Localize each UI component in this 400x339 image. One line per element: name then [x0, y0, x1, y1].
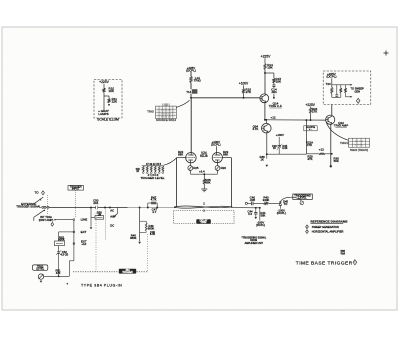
svg-text:4.5-25: 4.5-25	[60, 252, 68, 256]
svg-text:HORIZONTAL AMPLIFIER: HORIZONTAL AMPLIFIER	[312, 230, 344, 234]
svg-text:TRIGGER LEVEL: TRIGGER LEVEL	[140, 176, 164, 180]
wire delay line lower	[175, 206, 231, 208]
svg-text:2 4 6 8 1 2: 2 4 6 8 1 2	[161, 113, 172, 115]
svg-text:.001: .001	[271, 90, 277, 94]
wire Q24 base curve	[326, 121, 349, 140]
wire V24B plate	[216, 146, 218, 153]
wire C62 down	[58, 253, 60, 276]
resistor R28b	[345, 85, 347, 88]
svg-text:+100V: +100V	[239, 82, 249, 86]
boxed label SLOPE	[304, 126, 317, 131]
svg-text:56K: 56K	[334, 159, 339, 163]
wire trig bus horizontal	[191, 97, 260, 99]
svg-text:.001: .001	[93, 201, 99, 205]
svg-text:10K: 10K	[109, 89, 114, 93]
inductor L14	[190, 76, 193, 83]
resistor R21 small	[319, 153, 325, 155]
svg-text:LEVEL: LEVEL	[298, 196, 307, 200]
svg-text:LINE: LINE	[201, 221, 207, 224]
resistor R44 branch	[259, 208, 261, 221]
wire V24B grid	[222, 157, 231, 159]
wire Q34 emitter resistor	[266, 154, 268, 159]
wire branch to R11	[104, 95, 109, 97]
transistor Q34	[262, 123, 272, 133]
linkage dotted mid	[95, 213, 97, 271]
wire diode down	[279, 206, 281, 209]
arrow to sweep upper	[346, 84, 351, 86]
capacitor C50	[95, 206, 97, 209]
resistor R62 box	[54, 241, 64, 246]
linkage trig input dotted	[74, 190, 76, 218]
wire ext contacts down	[73, 221, 75, 261]
svg-text:(DIST AMP): (DIST AMP)	[39, 218, 54, 222]
pot triggering level	[300, 201, 304, 205]
capacitor C26	[336, 85, 338, 95]
svg-text:(DCPL): (DCPL)	[277, 211, 286, 215]
svg-text:T24: T24	[326, 82, 331, 86]
svg-text:6DJ8: 6DJ8	[200, 154, 208, 158]
svg-text:(DCPL): (DCPL)	[256, 223, 265, 227]
resistor R26	[331, 87, 333, 93]
resistor R27	[340, 85, 342, 88]
wire T14 to junction	[190, 94, 192, 98]
svg-text:15K: 15K	[267, 65, 272, 69]
dashed enclosure trig out	[323, 71, 371, 105]
svg-text:SWEEP GENERATOR: SWEEP GENERATOR	[312, 225, 339, 229]
wire slope vertical	[305, 120, 307, 154]
wire ext row	[59, 231, 74, 233]
resistor R24	[310, 106, 312, 109]
input terminal circles	[42, 206, 44, 208]
junction lens left	[174, 206, 176, 208]
wire wafer to trig bus	[176, 100, 189, 107]
junction shunt a	[255, 207, 257, 209]
svg-text:56K: 56K	[260, 213, 265, 217]
svg-text:4.7K: 4.7K	[151, 198, 157, 202]
switch SW14 SOURCE wafer table	[156, 106, 177, 119]
wire cathode right	[217, 170, 219, 173]
switch arm upper	[33, 197, 43, 204]
ground C44	[255, 217, 258, 219]
wire inner top	[332, 84, 346, 86]
int pickup diamond	[51, 222, 54, 226]
svg-text:TRIGGER SIGNAL: TRIGGER SIGNAL	[16, 205, 41, 209]
svg-text:470: 470	[56, 271, 61, 275]
wire R14 top	[264, 58, 266, 63]
diode D45	[278, 202, 280, 204]
boxed label trig input	[68, 186, 84, 191]
ground R48	[138, 242, 141, 244]
wire branch R15	[265, 72, 274, 74]
wire diode junction up	[280, 197, 291, 202]
arrow to sweep lower	[346, 96, 351, 98]
transistor Q24	[326, 115, 335, 124]
boxed label to sweep	[119, 269, 136, 274]
resistor R49	[145, 223, 147, 232]
svg-text:| | | | | |: | | | | | |	[163, 104, 170, 106]
svg-text:47 33 22 15 8: 47 33 22 15 8	[146, 163, 162, 166]
svg-text:*TRIGGERING SIGNAL: *TRIGGERING SIGNAL	[241, 236, 266, 239]
svg-text:FROM: FROM	[250, 240, 257, 242]
transistor Q14	[260, 94, 269, 103]
linkage dotted right	[146, 234, 148, 272]
svg-text:27K: 27K	[246, 90, 251, 94]
svg-text:27K: 27K	[312, 110, 317, 114]
capacitor C62	[57, 251, 60, 253]
wire pot row	[44, 275, 70, 277]
capacitor C36	[278, 145, 282, 147]
svg-text:+12: +12	[270, 116, 275, 120]
svg-text:LAMPS: LAMPS	[98, 112, 108, 116]
dashed plugin line left	[73, 271, 119, 273]
svg-text:T14: T14	[186, 90, 191, 94]
svg-text:GEN: GEN	[354, 90, 360, 93]
svg-text:LINE: LINE	[81, 218, 88, 222]
coupling wiper arrow	[117, 208, 119, 214]
terminal upper line	[245, 202, 247, 204]
wire L14 to T14	[190, 83, 192, 90]
svg-text:+225V: +225V	[99, 80, 109, 84]
legend item horizontal amplifier	[306, 230, 309, 234]
resistor R15	[273, 78, 275, 83]
svg-text:3.3K: 3.3K	[282, 146, 288, 150]
ground R50	[90, 227, 93, 229]
dashed enclosure delay line	[174, 211, 235, 224]
dashed enclosure scale-illum	[94, 80, 122, 119]
wire R50 branch	[90, 208, 92, 218]
wire T14 top	[190, 72, 192, 76]
svg-text:4.7K: 4.7K	[252, 127, 258, 131]
svg-text:TD: TD	[284, 202, 288, 206]
svg-text:1 2 5 1 2 5: 1 2 5 1 2 5	[161, 110, 172, 112]
svg-text:DC: DC	[110, 223, 114, 227]
wire cathode left	[189, 170, 191, 173]
wire lower conductor	[231, 206, 233, 208]
svg-text:10K: 10K	[276, 80, 281, 84]
svg-text:LEVEL: LEVEL	[36, 267, 45, 271]
wire trig bus to V24A	[190, 98, 192, 153]
wire R62 to C62	[58, 246, 60, 252]
junction lens right	[231, 206, 233, 208]
svg-text:AC: AC	[110, 208, 114, 212]
wire R14 to Q14	[264, 70, 266, 95]
wire main input line	[49, 206, 175, 208]
wire upper conductor	[247, 202, 251, 204]
dashed plugin line right	[136, 271, 147, 273]
svg-text:RM: RM	[341, 251, 346, 255]
ground cathode	[201, 188, 207, 190]
capacitor C14	[273, 83, 275, 85]
svg-text:TRIG'D: TRIG'D	[340, 141, 349, 145]
svg-text:TRIG C.F.: TRIG C.F.	[269, 104, 283, 108]
svg-text:+ -: + -	[309, 128, 312, 131]
svg-text:900K: 900K	[58, 238, 65, 242]
divider chain R-levels	[142, 165, 164, 167]
trimmer R26c	[216, 163, 218, 166]
ground Q34	[266, 165, 269, 167]
wire R50 down	[90, 217, 92, 226]
svg-text:SOURCE SW14: SOURCE SW14	[156, 118, 176, 122]
resistor R11	[108, 99, 110, 104]
wire R28 to gnd	[203, 184, 205, 189]
svg-text:330K: 330K	[263, 198, 270, 202]
wire dcpl down	[331, 78, 333, 87]
svg-text:EXT: EXT	[81, 230, 87, 234]
resistor R16	[242, 89, 244, 94]
wire Q34 emitter	[266, 132, 268, 154]
transformer T14	[192, 89, 198, 94]
resistor R14	[264, 64, 266, 70]
ground pot	[40, 281, 43, 283]
pot R51 knob	[38, 274, 43, 279]
svg-text:TIME BASE TRIGGER: TIME BASE TRIGGER	[296, 261, 353, 267]
svg-text:N O R M L: N O R M L	[355, 144, 364, 146]
wire Q24 emitter	[330, 124, 332, 166]
junction main c	[139, 207, 141, 209]
wire V24A grid	[177, 157, 186, 159]
svg-text:3.3: 3.3	[248, 212, 252, 216]
capacitor C40	[250, 202, 252, 206]
svg-text:22K: 22K	[112, 100, 117, 104]
resistor R28	[203, 179, 205, 185]
svg-text:.005: .005	[249, 198, 255, 202]
resistor R40	[264, 202, 269, 204]
wire ext chain vertical	[58, 232, 60, 241]
svg-text:TRIG: TRIG	[194, 79, 202, 83]
svg-text:TRIGGER: TRIGGER	[122, 272, 133, 274]
svg-text:+3.4: +3.4	[199, 170, 205, 174]
junction main a	[90, 207, 92, 209]
registration mark	[384, 52, 389, 54]
wire +12 horizontal	[265, 119, 326, 121]
wire Q34 collector	[265, 120, 267, 124]
svg-text:(DCPL): (DCPL)	[186, 68, 196, 72]
svg-text:REFERENCE DIAGRAMS: REFERENCE DIAGRAMS	[311, 220, 348, 224]
wire R49 loop	[140, 220, 147, 222]
capacitor C44	[255, 208, 257, 213]
svg-text:68K: 68K	[223, 153, 228, 157]
wire cathode down	[203, 174, 205, 179]
svg-text:SW24 (TRIG'D): SW24 (TRIG'D)	[350, 148, 368, 152]
boxed label triggering level	[293, 194, 313, 199]
wire emitter bus	[266, 153, 306, 155]
svg-text:÷10: ÷10	[81, 242, 86, 246]
svg-text:68K: 68K	[178, 153, 183, 157]
switch SW24 wafer table	[349, 138, 370, 147]
wire grid rail left	[176, 158, 178, 207]
tube V24B	[212, 153, 222, 163]
wire R48 branch	[139, 208, 141, 242]
svg-text:680K: 680K	[130, 236, 137, 240]
svg-text:47K: 47K	[307, 143, 312, 147]
svg-text:SCALE ILLUM: SCALE ILLUM	[97, 118, 119, 122]
svg-text:AMPLIFIER UNIT: AMPLIFIER UNIT	[245, 242, 264, 245]
wire delay line upper	[175, 206, 231, 208]
svg-text:TRIG AMP: TRIG AMP	[334, 124, 348, 128]
wire inner bottom	[332, 96, 341, 98]
svg-text:+12: +12	[319, 148, 324, 152]
legend item sweep generator	[306, 225, 309, 229]
svg-text:+225V: +225V	[261, 54, 271, 58]
wire cathode bus	[190, 173, 217, 175]
junction main b	[104, 207, 106, 209]
wire R16 bottom	[243, 94, 245, 98]
wire Q14 emitter	[264, 102, 266, 120]
svg-text:R26: R26	[221, 166, 227, 170]
wire grid rail right	[230, 158, 232, 207]
terminal Q24 emitter end	[330, 165, 332, 167]
wire C14 to bus	[273, 94, 275, 98]
resistor R50 box	[95, 216, 104, 220]
resistor R47 body	[151, 202, 156, 205]
tube V24A	[186, 153, 196, 163]
svg-text:(DCPL): (DCPL)	[326, 75, 336, 79]
wire mid branch	[278, 137, 280, 145]
wire int pickup stub	[33, 218, 35, 221]
resistor R10	[103, 88, 105, 93]
svg-text:8-50: 8-50	[150, 232, 156, 236]
wire R24 to bus	[310, 114, 312, 121]
svg-text:4.7: 4.7	[152, 210, 156, 214]
boxed label int trig level	[33, 265, 48, 270]
wire Q24 collector	[331, 104, 333, 115]
svg-text:(DCPL): (DCPL)	[211, 142, 221, 146]
wire R47 loop	[147, 203, 149, 208]
svg-text:47K: 47K	[307, 157, 312, 161]
wire R16 top	[243, 85, 245, 88]
boxed label delay line	[196, 219, 211, 223]
svg-text:1K: 1K	[261, 158, 265, 162]
svg-text:TRIG: TRIG	[147, 109, 154, 113]
svg-text:A C 1 P S: A C 1 P S	[355, 140, 364, 143]
wire lamp supply	[103, 84, 105, 88]
svg-text:TYPE 3B4 PLUG-IN: TYPE 3B4 PLUG-IN	[81, 284, 122, 288]
coupling linkage dotted	[105, 210, 107, 241]
switch linkage dotted	[46, 195, 48, 215]
title diamond	[353, 260, 357, 265]
svg-text:+100V: +100V	[276, 133, 284, 137]
svg-text:56K: 56K	[205, 181, 210, 185]
switch arm lower	[34, 210, 45, 217]
svg-text:INPUT: INPUT	[72, 187, 80, 191]
wire divider to grid	[164, 158, 177, 165]
trimmer R25	[189, 163, 191, 166]
wire line row	[55, 219, 73, 221]
capacitor C49	[146, 231, 148, 234]
ref diamond 1	[356, 98, 360, 103]
junction shunt b	[259, 207, 261, 209]
